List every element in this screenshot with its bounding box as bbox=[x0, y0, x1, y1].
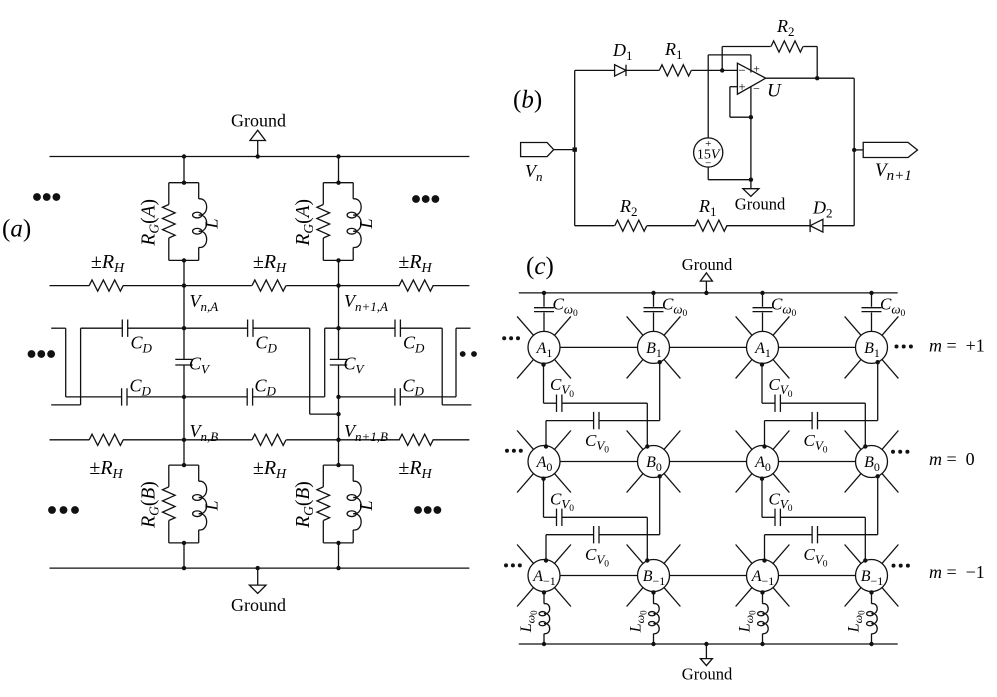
resistor plus-minus RH row B right bbox=[399, 434, 433, 445]
diode D2 bbox=[810, 219, 823, 232]
node dot top bus cell2 bbox=[336, 154, 340, 158]
wire cell2 row B to RG(B) block bbox=[338, 440, 340, 465]
svg-text:L: L bbox=[202, 218, 222, 229]
node dot top bus col4 bbox=[869, 291, 873, 295]
wire positive supply riser bbox=[707, 55, 709, 138]
wire pair12 gap+1/0 A down-leg bbox=[543, 363, 545, 403]
ellipsis right row2 (c) bbox=[892, 564, 896, 568]
svg-text:RG (B): RG (B) bbox=[139, 481, 162, 529]
resistor RG(A) parallel inductor L cell1 bbox=[169, 182, 199, 184]
wire row B segment mid-left bbox=[123, 439, 252, 441]
wire right edge bottom stub bbox=[442, 404, 471, 406]
wire pair34 gap+1/0 A down-leg bbox=[761, 363, 763, 403]
node dot top bus cell1 bbox=[182, 154, 186, 158]
ellipsis bottom right (a) bbox=[414, 506, 422, 514]
wire pair34 gap0/-1 drop to A node bbox=[764, 535, 766, 561]
node dot bottom bus at ground bbox=[256, 566, 260, 570]
wire node to inductor col4 bbox=[871, 592, 873, 604]
svg-text:L: L bbox=[356, 218, 376, 229]
node dot bottom CD line cell2 bbox=[336, 395, 340, 399]
wire top ground bus (c) bbox=[519, 292, 898, 294]
op-amp U triangle bbox=[737, 63, 765, 94]
capacitor C-V0 pair34 gap+1/0 upper bbox=[775, 395, 780, 412]
svg-text:L: L bbox=[202, 500, 222, 511]
svg-text:RG (A): RG (A) bbox=[139, 199, 162, 247]
wire mid crossover horizontal to cell2 bbox=[310, 413, 339, 415]
resistor R2 feedback bbox=[771, 41, 803, 52]
wire bottom ground bus (c) bbox=[519, 643, 898, 645]
wire pair12 gap+1/0 lower cross line bbox=[546, 420, 594, 422]
capacitor CV cell1 bbox=[175, 359, 192, 365]
node dot top bus col3 bbox=[760, 291, 764, 295]
svg-text:m = 0: m = 0 bbox=[929, 449, 975, 469]
wire inductor to bottom bus col3 bbox=[762, 634, 764, 644]
wire mid crossover vertical B bbox=[324, 328, 326, 397]
wire pair12 gap0/-1 B down-leg bbox=[659, 476, 661, 535]
wire output node to arrow bbox=[854, 149, 863, 151]
capacitor C-omega0 col2 bbox=[644, 308, 664, 312]
wire pair12 gap+1/0 B down-leg bbox=[659, 362, 661, 421]
wire noninverting input stub bbox=[730, 86, 738, 88]
capacitor CD bottom-left cell1 bbox=[122, 388, 127, 405]
wire pair34 gap+1/0 drop to A node bbox=[764, 421, 766, 447]
wire pair34 gap+1/0 upper cross line bbox=[762, 402, 775, 404]
resistor plus-minus RH row A mid bbox=[252, 280, 286, 291]
wire row 2 segment 2 bbox=[670, 575, 747, 577]
wire cell1 CV to row B bbox=[183, 365, 185, 440]
wire output vertical bbox=[853, 78, 855, 226]
node dot output junction bbox=[815, 76, 819, 80]
node dot bottom bus col4 bbox=[869, 642, 873, 646]
node dot bottom bus cell1 bbox=[182, 566, 186, 570]
wire node to inductor col2 bbox=[653, 592, 655, 604]
ground bottom (c) bbox=[705, 644, 707, 659]
ellipsis top left (a) bbox=[33, 193, 41, 201]
resistor RG(B) parallel inductor L cell2 lower bbox=[323, 464, 353, 466]
wire row A segment mid-left bbox=[123, 285, 252, 287]
wire row A segment left bbox=[50, 285, 90, 287]
node dot feedback junction bbox=[720, 68, 724, 72]
capacitor C-V0 pair12 gap+1/0 upper bbox=[557, 395, 562, 412]
wire pair12 gap0/-1 drop to A node bbox=[545, 535, 547, 561]
wire row 1 segment 1 bbox=[560, 461, 638, 463]
wire top bus to C-omega0 col2 bbox=[653, 293, 655, 307]
wire pair34 gap0/-1 upper cross line bbox=[762, 516, 775, 518]
wire row 1 segment 3 bbox=[779, 461, 856, 463]
wire right edge top stub bbox=[456, 327, 471, 329]
wire RG(B) block to bottom bus cell1 bbox=[183, 543, 185, 568]
node dot top bus ground (c) bbox=[704, 291, 708, 295]
wire mid crossover vertical A bbox=[309, 328, 311, 414]
capacitor C-omega0 col4 bbox=[862, 308, 882, 312]
wire cell1 row A to CV bbox=[183, 286, 185, 360]
svg-text:(a): (a) bbox=[2, 216, 31, 243]
capacitor C-V0 pair34 gap+1/0 lower bbox=[812, 412, 817, 429]
wire Vn arrow to node bbox=[554, 149, 575, 151]
capacitor CD top cell2 bbox=[395, 320, 400, 337]
wire positive supply top bbox=[708, 54, 751, 56]
resistor R2 bottom branch bbox=[615, 220, 647, 231]
capacitor CD top-left cell1 bbox=[122, 320, 127, 337]
wire cell1 top bus to RG(A) block bbox=[183, 157, 185, 183]
node dot bottom bus col2 bbox=[651, 642, 655, 646]
svg-text:−: − bbox=[753, 82, 760, 96]
wire bottom CD line cell1 bbox=[66, 396, 122, 398]
ellipsis mid right (a) bbox=[460, 351, 466, 357]
inductor L-omega0 col4 bbox=[872, 604, 878, 634]
ellipsis top right (a) bbox=[412, 195, 420, 203]
wire row 0 segment 2 bbox=[670, 346, 747, 348]
node B_1 circle col4 row0 bbox=[856, 331, 888, 363]
node dot noninverting loop junction bbox=[749, 115, 753, 119]
wire pair34 gap0/-1 B down-leg bbox=[877, 476, 879, 535]
svg-text:Ground: Ground bbox=[735, 195, 786, 214]
inductor L-omega0 col2 bbox=[654, 604, 660, 634]
node dot bottom CD line cell1 bbox=[182, 395, 186, 399]
wire pair12 gap+1/0 drop to B node bbox=[646, 403, 648, 446]
node dot top CD line cell1 bbox=[182, 326, 186, 330]
svg-text:RG (A): RG (A) bbox=[293, 199, 316, 247]
ground bottom (a) bbox=[257, 568, 259, 585]
wire feedback top right segment bbox=[803, 46, 817, 48]
resistor plus-minus RH row B mid bbox=[252, 434, 286, 445]
capacitor C-V0 pair12 gap0/-1 upper bbox=[557, 509, 562, 526]
wire D1 to R1 top bbox=[626, 69, 659, 71]
wire bottom ground bus (a) bbox=[50, 567, 470, 569]
wire bottom CD line cell2 bbox=[339, 396, 395, 398]
svg-text:(b): (b) bbox=[513, 87, 542, 114]
ground top (a) bbox=[257, 141, 259, 157]
capacitor C-V0 pair12 gap+1/0 lower bbox=[594, 412, 599, 429]
svg-text:+: + bbox=[753, 62, 760, 76]
ellipsis right row0 (c) bbox=[895, 345, 899, 349]
wire pair34 gap+1/0 lower cross line bbox=[765, 420, 813, 422]
wire row 0 segment 1 bbox=[560, 346, 638, 348]
svg-text:Ground: Ground bbox=[231, 595, 286, 615]
wire pair12 gap0/-1 drop to B node bbox=[646, 517, 648, 560]
wire feedback top left segment bbox=[722, 46, 771, 48]
node dot bottom bus ground (c) bbox=[704, 642, 708, 646]
wire top ground bus (a) bbox=[50, 156, 470, 158]
wire bottom branch right segment bbox=[726, 225, 810, 227]
wire top CD line cell2 bbox=[325, 327, 395, 329]
wire pair12 gap+1/0 drop to A node bbox=[545, 421, 547, 447]
wire top bus to C-omega0 col4 bbox=[871, 293, 873, 307]
node dot bottom bus cell2 bbox=[336, 566, 340, 570]
wire row B segment left bbox=[50, 439, 90, 441]
capacitor C-omega0 col1 bbox=[534, 308, 554, 312]
ellipsis mid left (a) bbox=[28, 350, 36, 358]
node dot row A cell1 bbox=[182, 283, 186, 287]
svg-text:Ground: Ground bbox=[682, 255, 733, 274]
wire RG(A) block to row A cell2 bbox=[338, 260, 340, 285]
ellipsis left row1 (c) bbox=[505, 449, 509, 453]
wire noninverting loop horizontal bbox=[730, 116, 751, 118]
inductor L-omega0 col1 bbox=[544, 604, 550, 634]
wire feedback up from input node bbox=[721, 47, 723, 71]
wire pair34 gap+1/0 B down-leg bbox=[877, 362, 879, 421]
node dot Vn input bbox=[573, 147, 577, 151]
wire row 0 segment 3 bbox=[779, 346, 856, 348]
wire feedback down to output bbox=[816, 47, 818, 79]
wire negative supply from op-amp bbox=[750, 87, 752, 180]
wire node to inductor col1 bbox=[543, 592, 545, 604]
wire pair12 gap0/-1 A down-leg bbox=[543, 478, 545, 518]
wire pair34 gap0/-1 drop to B node bbox=[864, 517, 866, 560]
node dot output port bbox=[852, 148, 856, 152]
wire left edge vertical to bottom line bbox=[65, 328, 67, 397]
ground (b) bbox=[750, 180, 752, 189]
wire left edge vertical from top line bbox=[80, 328, 82, 405]
wire cell1 row B to RG(B) block bbox=[183, 440, 185, 465]
wire row 2 segment 3 bbox=[779, 575, 856, 577]
ground top (c) bbox=[705, 281, 707, 293]
capacitor CD bottom-right cell1 bbox=[247, 388, 252, 405]
wire D2 to output vertical bbox=[823, 225, 854, 227]
svg-text:Ground: Ground bbox=[231, 111, 286, 131]
wire pair12 gap0/-1 lower cross line bbox=[546, 534, 594, 536]
svg-text:(c): (c) bbox=[526, 253, 554, 280]
wire row A segment mid-right bbox=[286, 285, 400, 287]
wire cell2 top bus to RG(A) block bbox=[338, 157, 340, 183]
wire left edge top stub bbox=[51, 327, 65, 329]
resistor plus-minus RH row A left bbox=[89, 280, 123, 291]
battery 15V circle bbox=[694, 138, 723, 167]
wire bottom branch left segment bbox=[575, 225, 615, 227]
resistor plus-minus RH row A right bbox=[399, 280, 433, 291]
node dot mid crossover bbox=[336, 412, 340, 416]
capacitor CD top-right cell1 bbox=[248, 320, 253, 337]
ellipsis bottom left (a) bbox=[48, 506, 56, 514]
output port arrow Vn+1 bbox=[863, 142, 917, 157]
wire top CD line cell1 left part bbox=[81, 327, 123, 329]
wire left edge bottom stub bbox=[51, 404, 80, 406]
wire cell2 row A to CV bbox=[338, 286, 340, 360]
node A_1 circle col1 row0 bbox=[528, 331, 560, 363]
node A_0 circle col1 row1 bbox=[528, 446, 560, 478]
wire row 1 segment 2 bbox=[670, 461, 747, 463]
wire inductor to bottom bus col4 bbox=[871, 634, 873, 644]
wire right edge vertical from top line bbox=[441, 328, 443, 405]
node A_1 circle col3 row0 bbox=[747, 331, 779, 363]
node dot row B cell2 bbox=[336, 438, 340, 442]
wire op-amp output bbox=[766, 77, 855, 79]
capacitor C-V0 pair34 gap0/-1 upper bbox=[775, 509, 780, 526]
node A_0 circle col3 row1 bbox=[747, 446, 779, 478]
wire top bus to C-omega0 col3 bbox=[762, 293, 764, 307]
wire pair12 gap0/-1 upper cross line bbox=[544, 516, 557, 518]
wire cell2 CV to row B bbox=[338, 365, 340, 440]
wire right edge vertical to bottom line bbox=[455, 328, 457, 397]
capacitor CV cell2 bbox=[330, 359, 347, 365]
wire C-omega0 to node col1 bbox=[543, 313, 545, 332]
node dot row B cell1 bbox=[182, 438, 186, 442]
wire node to inductor col3 bbox=[762, 592, 764, 604]
wire pair34 gap0/-1 lower cross line bbox=[765, 534, 813, 536]
svg-text:+: + bbox=[738, 79, 745, 94]
svg-text:−: − bbox=[738, 63, 745, 78]
node dot top bus col2 bbox=[651, 291, 655, 295]
node B_&#8722;1 circle col2 row2 bbox=[638, 560, 670, 592]
node dot top bus col1 bbox=[542, 291, 546, 295]
ellipsis left row0 (c) bbox=[502, 336, 506, 340]
node dot row A cell2 bbox=[336, 283, 340, 287]
wire RG(B) block to bottom bus cell2 bbox=[338, 543, 340, 568]
inductor L-omega0 col3 bbox=[763, 604, 769, 634]
resistor RG(A) parallel inductor L cell2 bbox=[323, 182, 353, 184]
wire positive supply into op-amp bbox=[750, 55, 752, 73]
svg-text:L: L bbox=[356, 500, 376, 511]
wire battery bottom down bbox=[707, 167, 709, 180]
wire bottom branch mid segment bbox=[647, 225, 695, 227]
node B_&#8722;1 circle col4 row2 bbox=[856, 560, 888, 592]
svg-text:U: U bbox=[767, 81, 782, 102]
wire pair12 gap+1/0 upper cross line bbox=[544, 402, 557, 404]
node A_&#8722;1 circle col3 row2 bbox=[747, 560, 779, 592]
svg-text:m = −1: m = −1 bbox=[929, 562, 985, 582]
wire RG(A) block to row A cell1 bbox=[183, 260, 185, 285]
wire row B segment right bbox=[433, 439, 470, 441]
wire row 2 segment 1 bbox=[560, 575, 638, 577]
capacitor C-V0 pair12 gap0/-1 lower bbox=[594, 526, 599, 543]
ellipsis left row2 (c) bbox=[504, 563, 508, 567]
node dot top CD line cell2 bbox=[336, 326, 340, 330]
ellipsis right row1 (c) bbox=[891, 450, 895, 454]
capacitor CD bottom cell2 bbox=[395, 388, 400, 405]
node B_0 circle col4 row1 bbox=[856, 446, 888, 478]
node B_0 circle col2 row1 bbox=[638, 446, 670, 478]
node A_&#8722;1 circle col1 row2 bbox=[528, 560, 560, 592]
wire top CD line cell1 right part bbox=[253, 327, 310, 329]
resistor R1 bottom branch bbox=[695, 220, 727, 231]
diode D1 bbox=[615, 65, 626, 76]
capacitor C-V0 pair34 gap0/-1 lower bbox=[812, 526, 817, 543]
wire C-omega0 to node col2 bbox=[653, 313, 655, 332]
wire input vertical bbox=[574, 70, 576, 225]
wire battery bottom to ground node bbox=[708, 179, 751, 181]
resistor RG(B) parallel inductor L cell1 lower bbox=[169, 464, 199, 466]
capacitor C-omega0 col3 bbox=[753, 308, 773, 312]
wire noninverting loop vertical bbox=[729, 87, 731, 118]
node dot ground junction (b) bbox=[749, 178, 753, 182]
wire row A segment right bbox=[433, 285, 470, 287]
node dot bottom bus col3 bbox=[760, 642, 764, 646]
wire top branch to D1 bbox=[575, 69, 615, 71]
resistor R1 top branch bbox=[659, 65, 691, 76]
svg-text:Ground: Ground bbox=[682, 665, 733, 684]
wire R1 to op-amp inverting input bbox=[691, 69, 737, 71]
wire row B segment mid-right bbox=[286, 439, 400, 441]
node dot bottom bus col1 bbox=[542, 642, 546, 646]
wire pair34 gap+1/0 drop to B node bbox=[864, 403, 866, 446]
wire C-omega0 to node col3 bbox=[762, 313, 764, 332]
wire pair34 gap0/-1 A down-leg bbox=[761, 478, 763, 518]
svg-text:RG (B): RG (B) bbox=[293, 481, 316, 529]
svg-text:m = +1: m = +1 bbox=[929, 336, 985, 356]
wire inductor to bottom bus col1 bbox=[543, 634, 545, 644]
input port arrow Vn bbox=[521, 143, 554, 157]
resistor plus-minus RH row B left bbox=[89, 434, 123, 445]
node dot top bus at ground bbox=[256, 154, 260, 158]
wire C-omega0 to node col4 bbox=[871, 313, 873, 332]
node B_1 circle col2 row0 bbox=[638, 331, 670, 363]
wire top bus to C-omega0 col1 bbox=[543, 293, 545, 307]
wire inductor to bottom bus col2 bbox=[653, 634, 655, 644]
